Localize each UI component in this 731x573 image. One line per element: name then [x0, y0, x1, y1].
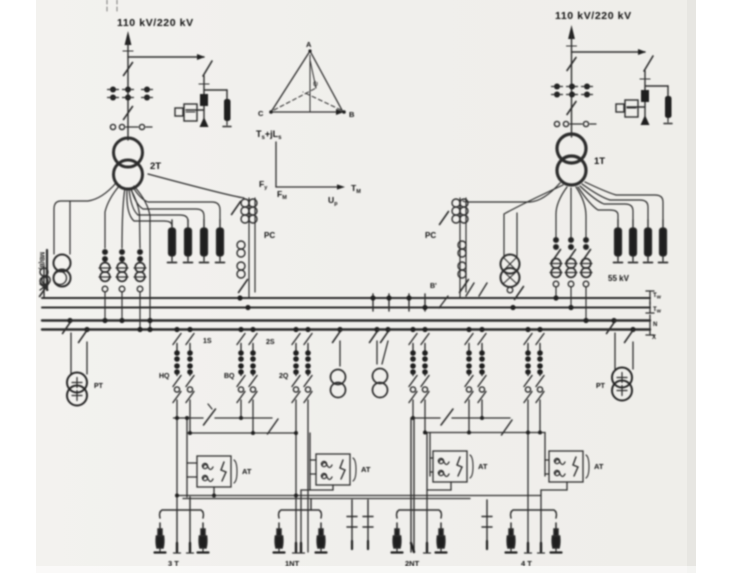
svg-text:110 kV/220 kV: 110 kV/220 kV [555, 10, 632, 22]
svg-text:AT: AT [478, 462, 488, 471]
svg-text:B: B [349, 110, 355, 119]
svg-text:2T: 2T [150, 161, 161, 172]
svg-text:BQ: BQ [224, 373, 235, 380]
svg-text:TW: TW [653, 307, 662, 313]
svg-text:2S: 2S [266, 339, 275, 346]
svg-text:1T: 1T [594, 156, 605, 167]
svg-text:TW: TW [653, 293, 662, 299]
svg-text:A: A [306, 40, 312, 49]
svg-text:1S: 1S [203, 338, 212, 345]
svg-text:AT: AT [242, 467, 252, 476]
svg-text:HQ: HQ [159, 373, 170, 380]
svg-text:AT: AT [361, 465, 371, 474]
svg-text:ψ: ψ [313, 81, 318, 88]
svg-text:PC: PC [264, 231, 275, 240]
svg-text:2Q: 2Q [279, 373, 289, 380]
svg-text:AT: AT [594, 462, 604, 471]
svg-text:MB(B): MB(B) [38, 252, 44, 270]
svg-text:C: C [258, 109, 264, 118]
svg-text:PT: PT [596, 383, 606, 390]
svg-text:X: X [652, 335, 656, 341]
svg-text:110 kV/220 kV: 110 kV/220 kV [117, 17, 194, 29]
svg-text:B': B' [430, 283, 437, 290]
svg-text:PT: PT [94, 383, 104, 390]
svg-text:N: N [653, 322, 657, 328]
svg-text:PC: PC [425, 231, 436, 240]
svg-text:55 kV: 55 kV [608, 274, 630, 283]
